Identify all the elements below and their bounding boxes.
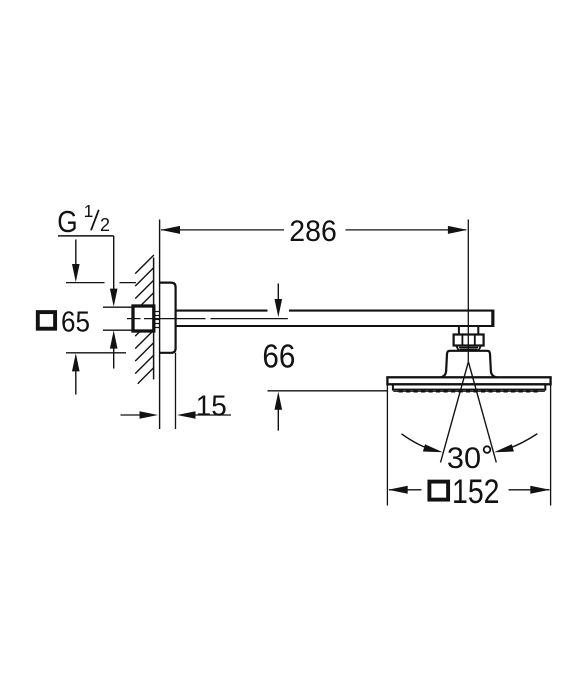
svg-text:30: 30 xyxy=(447,442,481,475)
svg-text:G: G xyxy=(57,205,77,240)
svg-text:65: 65 xyxy=(61,306,90,338)
svg-text:152: 152 xyxy=(452,473,500,511)
svg-text:15: 15 xyxy=(196,390,227,422)
svg-text:66: 66 xyxy=(262,339,295,376)
svg-text:1: 1 xyxy=(84,201,94,221)
svg-text:286: 286 xyxy=(289,215,337,248)
svg-text:2: 2 xyxy=(100,215,110,235)
